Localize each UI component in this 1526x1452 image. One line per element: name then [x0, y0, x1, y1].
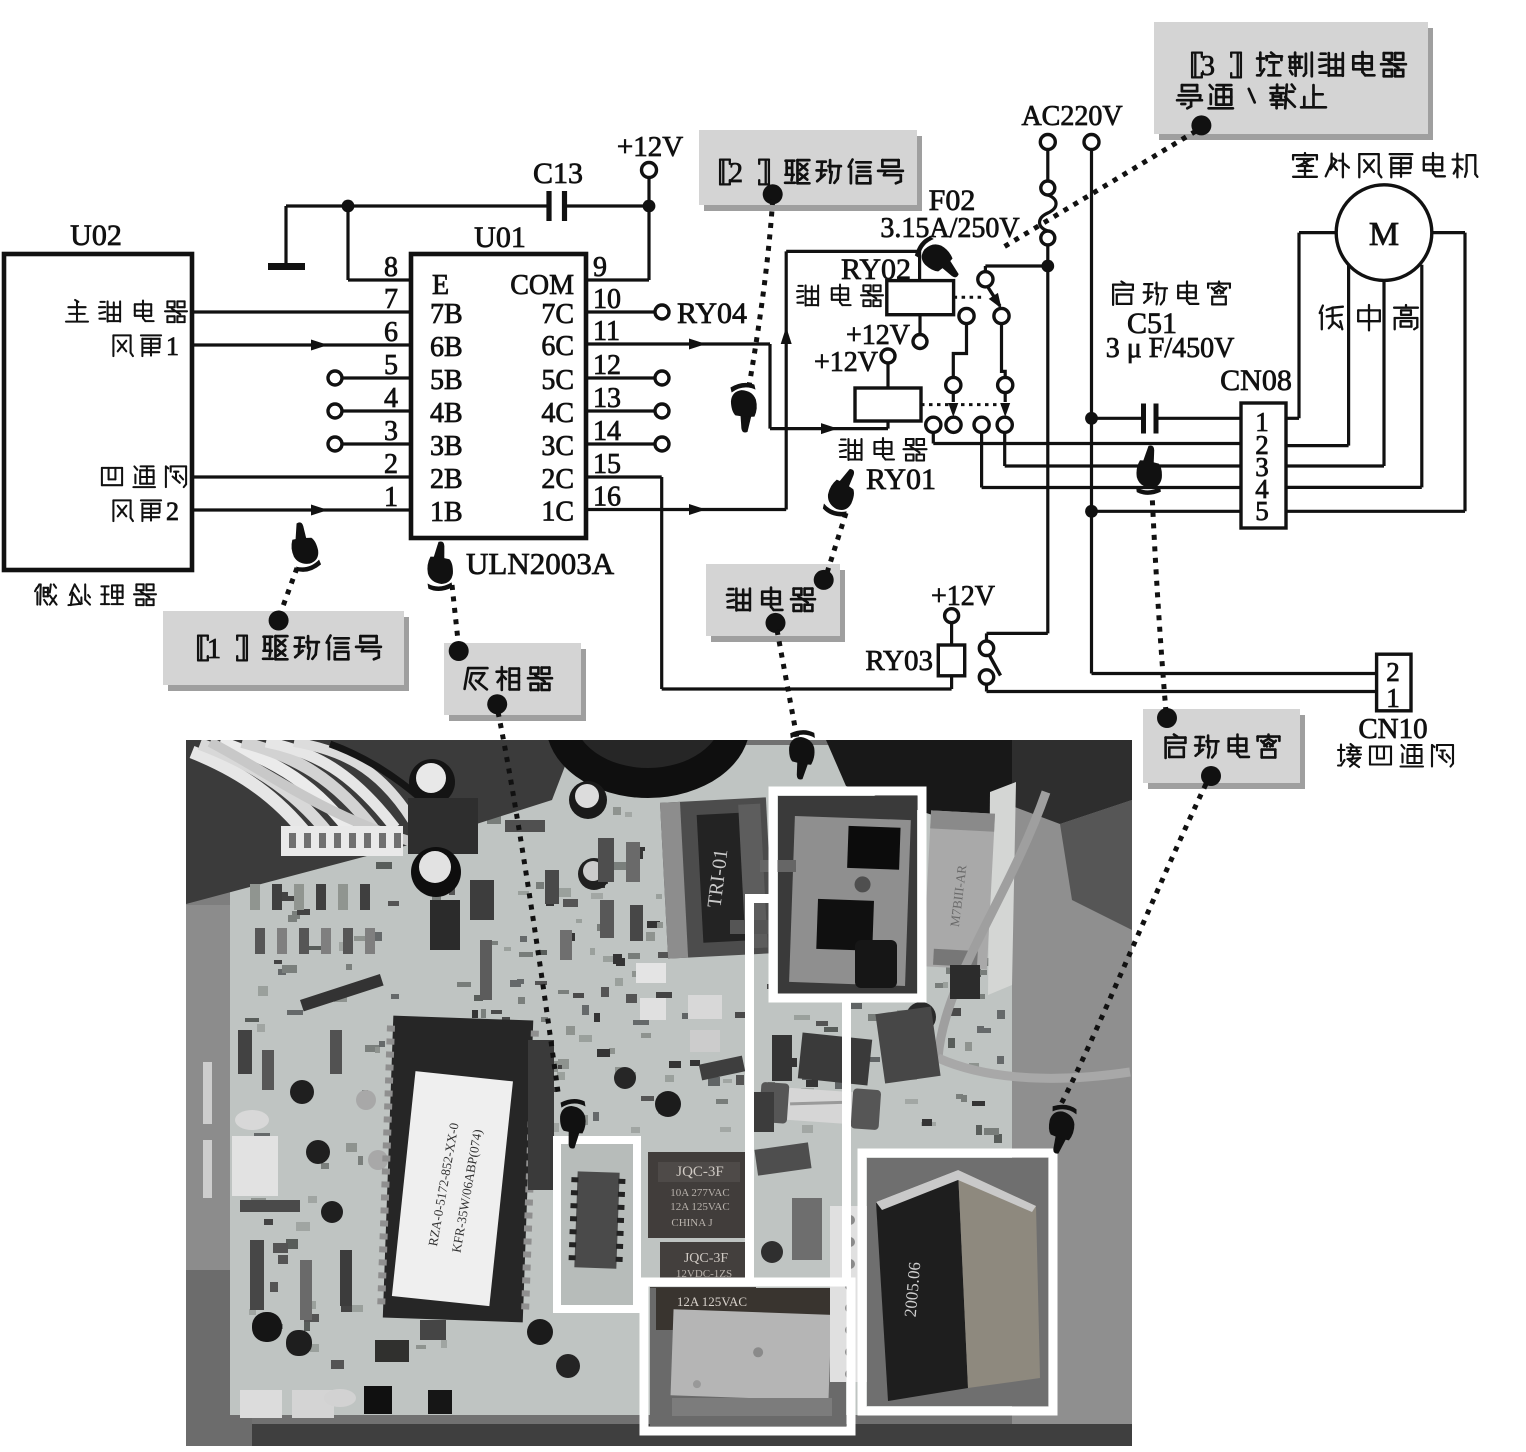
wire 主继电器 to 7B [192, 310, 411, 313]
relay coil RY01 [855, 388, 921, 421]
relay coil RY02 [887, 281, 954, 315]
pointer from 启动电容 label to C51 [1135, 445, 1177, 728]
transformer TRI-01 [660, 797, 774, 958]
contact RY01 pole b [946, 417, 961, 432]
node junction AC2 bottom [1085, 505, 1098, 518]
pin number CN10-1 [1386, 683, 1400, 713]
top right dark mass [826, 740, 1132, 930]
pin label 6B [430, 332, 463, 363]
node junction right [643, 200, 656, 213]
node junction AC1 [1041, 260, 1054, 273]
svg-text:1C: 1C [541, 497, 574, 528]
svg-text:3C: 3C [541, 431, 574, 462]
svg-text:3B: 3B [430, 431, 463, 462]
pointer from label 2 to 6C wire [730, 184, 782, 433]
pin number 1 [384, 482, 398, 513]
svg-text:6B: 6B [430, 332, 463, 363]
start capacitor in box D [867, 1158, 1048, 1406]
pin label COM [510, 270, 574, 301]
small IC inside box E [560, 1143, 634, 1305]
microprocessor U02 [4, 219, 192, 570]
pin label 1B [430, 497, 463, 528]
wire motor right to CN08 pin5 [1286, 233, 1465, 512]
pin label 7C [541, 299, 574, 330]
pointer from RY01 to 继电器 label [814, 464, 864, 590]
svg-text:4: 4 [384, 383, 398, 414]
svg-text:14: 14 [593, 416, 621, 447]
wire 风扇2 to 1B [192, 505, 411, 516]
label 风扇1 [113, 332, 179, 361]
svg-text:12A 125VAC: 12A 125VAC [677, 1294, 747, 1309]
output RY04 terminal pin10 [586, 297, 747, 330]
svg-text:1: 1 [207, 634, 221, 665]
pin number 3 [384, 416, 398, 447]
svg-text:CN08: CN08 [1220, 364, 1292, 397]
label 四通阀 [102, 466, 186, 487]
label F02 3.15A/250V [880, 184, 1019, 244]
svg-text:8: 8 [384, 252, 398, 283]
wire contact d to CN08 pin3 [1005, 432, 1241, 466]
capacitor C13 [533, 157, 583, 221]
pin number 9 [593, 252, 607, 283]
callout label 2 驱动信号 [699, 130, 922, 211]
svg-text:12: 12 [593, 350, 621, 381]
label RY01 [866, 463, 936, 496]
PCB photo background [186, 740, 1132, 1446]
svg-text:5C: 5C [541, 365, 574, 396]
svg-text:U01: U01 [474, 221, 526, 254]
pin number 11 [593, 316, 620, 347]
pointer from U01 to 反相器 label [427, 541, 469, 661]
IC U01 ULN2003A [411, 221, 586, 538]
wire contact c to CN08 pin4 [982, 432, 1241, 487]
contact RY01 pole d [997, 417, 1012, 432]
pin label 7B [430, 299, 463, 330]
electrolytic capacitors [408, 759, 936, 1032]
svg-text:7B: 7B [430, 299, 463, 330]
svg-text:1: 1 [166, 332, 179, 361]
label 继电器 RY01 [840, 438, 927, 461]
svg-text:10: 10 [593, 284, 621, 315]
big IC RZA-0-5172 [377, 1015, 539, 1322]
wire AC line 2 [1092, 150, 1377, 674]
metal bracket M7B [923, 810, 995, 969]
highlight box E inverter IC [557, 1140, 637, 1309]
label ULN2003A [466, 546, 615, 581]
wire RY03 to CN10 pin1 [987, 684, 1377, 691]
svg-text:13: 13 [593, 383, 621, 414]
pin label 3B [430, 431, 463, 462]
svg-text:11: 11 [593, 316, 620, 347]
label CN10 接四通阀 [1338, 713, 1453, 767]
svg-text:2: 2 [729, 158, 743, 189]
wire 四通阀 to 2B [192, 475, 411, 478]
relay under box A [778, 796, 917, 994]
svg-text:2: 2 [384, 449, 398, 480]
relay action dotted RY01 [921, 403, 1008, 406]
fuse cylinder [759, 1082, 881, 1130]
pin label 5C [541, 365, 574, 396]
label 室外风扇电机 [1293, 153, 1477, 177]
pin number 16 [593, 482, 621, 513]
svg-text:1: 1 [384, 482, 398, 513]
input terminal 4B [328, 404, 411, 418]
pin label 2B [430, 464, 463, 495]
wire AC2 to CN08 pin5 [1092, 510, 1242, 513]
label 主继电器 [66, 300, 187, 322]
wire 2C to RY03 coil [586, 477, 952, 689]
svg-text:+12V: +12V [617, 131, 683, 163]
pin number 13 [593, 383, 621, 414]
pin label 6C [541, 331, 574, 362]
label 启动电容 C51 [1106, 282, 1235, 365]
wire RY02 left throw to RY01 contact [953, 324, 966, 378]
pointer from label 3 to RY02 switch [912, 115, 1212, 286]
svg-text:1: 1 [1386, 683, 1400, 713]
pin label 3C [541, 431, 574, 462]
wire rail to pin 8 E [348, 206, 411, 280]
capacitor C51 [1092, 404, 1242, 434]
wire top rail to COM [286, 204, 649, 207]
+12V supply terminal (COM) [617, 131, 683, 206]
pin label 4B [430, 398, 463, 429]
top black speaker blob [546, 650, 750, 798]
switch RY02 lever [988, 287, 1007, 312]
svg-text:15: 15 [593, 449, 621, 480]
pin number 14 [593, 416, 621, 447]
contact RY01 pole a [926, 417, 941, 432]
highlight box C bottom relay [644, 1282, 851, 1431]
pin number CN08-1 [1255, 407, 1269, 437]
svg-text:JQC-3F: JQC-3F [676, 1164, 724, 1180]
svg-text:4C: 4C [541, 398, 574, 429]
+12V terminal RY03 [931, 581, 995, 645]
pointer from 反相器 label to IC in photo [487, 694, 586, 1149]
relay action dotted RY02 [954, 296, 983, 299]
white pin connector strip [830, 1206, 870, 1382]
pin number 6 [384, 317, 398, 348]
svg-text:16: 16 [593, 482, 621, 513]
switch RY02 contact right [994, 308, 1009, 323]
svg-text:5: 5 [384, 350, 398, 381]
label 低 中 高 [1320, 305, 1418, 330]
switch RY02 pole [978, 266, 1048, 287]
output terminal pin13 [586, 404, 669, 418]
svg-text:RY01: RY01 [866, 463, 936, 496]
board component speckle [245, 807, 1005, 1406]
svg-text:9: 9 [593, 252, 607, 283]
pin label 2C [541, 464, 574, 495]
label 微处理器 [35, 584, 156, 605]
ground [268, 206, 305, 267]
highlight box D start capacitor [862, 1153, 1053, 1411]
contact RY01 upper right [998, 377, 1013, 417]
svg-text:RY04: RY04 [677, 297, 747, 330]
wire motor high tap to CN08 pin4 [1286, 265, 1422, 488]
contact RY01 upper left [946, 377, 961, 417]
wire motor mid tap to CN08 pin3 [1286, 280, 1384, 466]
pin number 10 [593, 284, 621, 315]
fuse F02 [1040, 150, 1057, 634]
wire contact a to CN08 pin2 [933, 432, 1241, 443]
callout label 继电器 [706, 564, 845, 642]
svg-text:3.15A/250V: 3.15A/250V [880, 213, 1019, 244]
dark top-left corner of photo [186, 740, 575, 904]
relay coil RY03 [865, 645, 964, 689]
fuse body 3.15A label area [798, 1006, 941, 1085]
svg-text:1B: 1B [430, 497, 463, 528]
wire motor low tap to CN08 pin2 [1286, 265, 1349, 446]
pin number 7 [384, 284, 398, 315]
pcb corner highlight top right [988, 782, 1016, 995]
wire AC1 to RY03 contact [987, 633, 1048, 641]
output terminal pin14 [586, 437, 669, 451]
pin number 2 [384, 449, 398, 480]
wire 风扇1 to 6B [192, 340, 411, 351]
svg-text:COM: COM [510, 270, 574, 301]
pointer from 启动电容 label to capacitor in photo [1043, 766, 1221, 1156]
svg-text:RY03: RY03 [865, 645, 933, 677]
wire 1C to RY02 coil [586, 251, 920, 515]
callout label 启动电容 [1143, 709, 1305, 789]
svg-text:6: 6 [384, 317, 398, 348]
svg-text:RY02: RY02 [841, 253, 911, 286]
left resistor rows [203, 884, 452, 1418]
svg-text:6C: 6C [541, 331, 574, 362]
label 风扇2 [113, 497, 179, 526]
white cable bundle [192, 742, 452, 845]
callout label 反相器 [444, 643, 586, 721]
switch RY03 contacts [979, 641, 1000, 684]
pointer from label 1 to 1B wire [269, 520, 322, 631]
svg-text:+12V: +12V [814, 347, 878, 378]
svg-text:ULN2003A: ULN2003A [466, 546, 615, 581]
svg-text:7C: 7C [541, 299, 574, 330]
pin number CN08-4 [1255, 474, 1269, 504]
AC220V terminals [1021, 101, 1122, 150]
connector CN10 [1377, 654, 1411, 711]
wire COM rail to pin 9 [586, 206, 649, 280]
input terminal 3B [328, 437, 411, 451]
pin number CN08-5 [1255, 496, 1269, 526]
svg-text:3: 3 [1201, 51, 1215, 82]
svg-text:10A 277VAC: 10A 277VAC [670, 1187, 729, 1199]
pin number CN10-2 [1386, 657, 1400, 687]
callout label 1 驱动信号 [163, 611, 409, 691]
highlight box A relay [773, 791, 922, 998]
relay and socket in box C [650, 1288, 846, 1426]
svg-text:AC220V: AC220V [1021, 101, 1122, 132]
highlight box B tall [750, 899, 847, 1284]
pin number 12 [593, 350, 621, 381]
relays JQC-3F [648, 1152, 756, 1333]
svg-text:3 μ F/450V: 3 μ F/450V [1106, 333, 1235, 364]
svg-text:7: 7 [384, 284, 398, 315]
label RY02 [841, 253, 911, 286]
pin number 8 [384, 252, 398, 283]
svg-text:CN10: CN10 [1358, 713, 1427, 745]
connector CN08 [1220, 364, 1292, 528]
pin number CN08-2 [1255, 430, 1269, 460]
node junction AC2 top [1085, 412, 1098, 425]
pin label 4C [541, 398, 574, 429]
pin label 1C [541, 497, 574, 528]
svg-text:12A 125VAC: 12A 125VAC [670, 1201, 729, 1213]
pin number 15 [593, 449, 621, 480]
svg-text:5: 5 [1255, 496, 1269, 526]
pin number CN08-3 [1255, 452, 1269, 482]
motor M outdoor fan [1336, 185, 1432, 281]
wire motor left to CN08 pin1 [1286, 233, 1336, 419]
svg-text:C13: C13 [533, 157, 583, 190]
contact RY01 pole c [974, 417, 989, 432]
input terminal 5B [328, 371, 411, 385]
svg-text:CHINA J: CHINA J [671, 1217, 713, 1229]
switch RY02 contact left [959, 308, 974, 323]
pointer from 继电器 label into photo [766, 613, 817, 780]
svg-text:E: E [432, 270, 449, 301]
callout label 3 控制继电器导通截止 [1154, 22, 1433, 140]
output terminal pin12 [586, 371, 669, 385]
pin label E [432, 270, 449, 301]
svg-text:U02: U02 [70, 219, 122, 252]
node junction left [342, 200, 355, 213]
label 继电器 RY02 [797, 285, 883, 307]
+12V terminal RY01 [814, 347, 895, 388]
svg-text:3: 3 [384, 416, 398, 447]
svg-text:2: 2 [166, 497, 179, 526]
svg-text:+12V: +12V [931, 581, 995, 612]
wire RY02 right throw to RY01 contact [1002, 324, 1006, 378]
+12V terminal RY02 [846, 315, 927, 351]
misc mid-board components [238, 820, 980, 1407]
PCB board [230, 745, 1012, 1415]
svg-text:2C: 2C [541, 464, 574, 495]
orange jumper wire [938, 792, 1130, 1078]
white connector strip [281, 826, 403, 856]
svg-text:4B: 4B [430, 398, 463, 429]
wire 6C to RY01 coil [586, 339, 888, 435]
svg-text:M: M [1369, 216, 1399, 253]
pin label 5B [430, 365, 463, 396]
pin number 5 [384, 350, 398, 381]
svg-text:JQC-3F: JQC-3F [684, 1251, 729, 1266]
svg-text:5B: 5B [430, 365, 463, 396]
svg-text:2B: 2B [430, 464, 463, 495]
pin number 4 [384, 383, 398, 414]
